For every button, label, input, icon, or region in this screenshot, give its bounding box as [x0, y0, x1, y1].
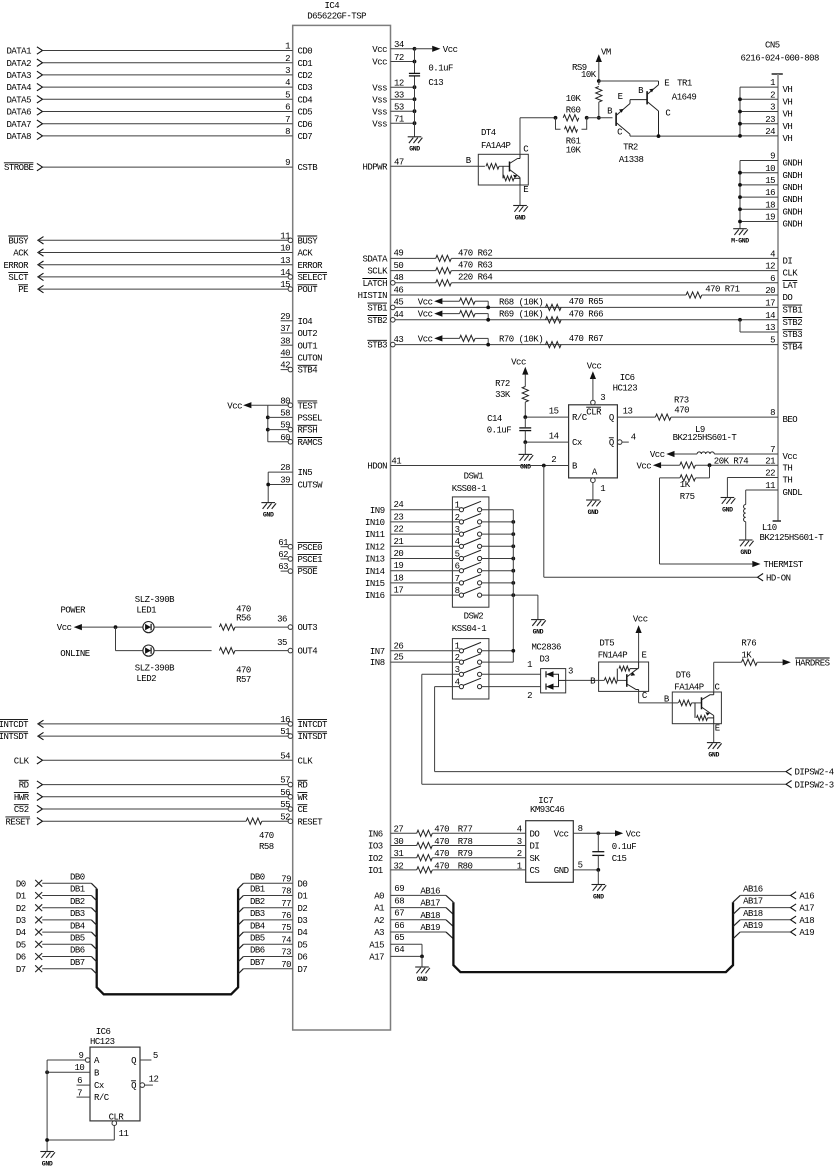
svg-text:AB18: AB18	[743, 909, 763, 919]
svg-text:75: 75	[281, 923, 291, 933]
svg-text:Cx: Cx	[94, 1081, 104, 1091]
svg-text:LAT: LAT	[783, 281, 799, 291]
node IC6b A pin 9	[47, 1051, 100, 1066]
svg-text:GNDH: GNDH	[783, 195, 803, 205]
svg-text:GND: GND	[520, 463, 531, 470]
svg-text:DATA4: DATA4	[6, 83, 31, 93]
svg-text:470 R67: 470 R67	[569, 334, 603, 344]
switch DSW2-4 to D3 and DIPSW2-4	[435, 678, 541, 689]
node IC6 Q pin 13 to BEO via resistor R73 470	[609, 396, 797, 426]
svg-text:PE: PE	[18, 285, 28, 295]
svg-text:0.1uF: 0.1uF	[612, 842, 637, 852]
svg-text:IC6: IC6	[96, 1027, 111, 1037]
svg-text:IO4: IO4	[298, 317, 313, 327]
svg-text:RFSH: RFSH	[298, 426, 318, 436]
svg-text:DIPSW2-3: DIPSW2-3	[795, 780, 834, 790]
node C52 input, pin 55 CE	[14, 800, 308, 815]
svg-text:TEST: TEST	[298, 401, 319, 411]
svg-text:470: 470	[674, 406, 689, 416]
svg-text:10K: 10K	[566, 146, 582, 156]
svg-text:SLZ-390B: SLZ-390B	[135, 595, 175, 605]
svg-text:2: 2	[551, 455, 556, 465]
svg-text:7: 7	[455, 574, 460, 584]
resistor R56 470	[154, 605, 317, 634]
node CN5 pin 24 VH	[738, 127, 792, 144]
svg-text:A17: A17	[799, 904, 814, 914]
node DATA2 input, pin 2 CD1	[6, 54, 312, 69]
svg-text:SCLK: SCLK	[367, 267, 388, 277]
node IC6b Q pin 5 stub	[131, 1051, 158, 1066]
svg-text:10: 10	[765, 164, 775, 174]
node pin 34 Vcc	[372, 40, 416, 55]
svg-text:8: 8	[285, 127, 290, 137]
svg-text:5: 5	[153, 1051, 158, 1061]
svg-text:21: 21	[394, 537, 404, 547]
node pin 30 IO3 to IC7 DI via resistor R78 470	[368, 837, 539, 852]
svg-text:20: 20	[394, 549, 404, 559]
capacitor C15 0.1uF	[592, 833, 636, 870]
svg-text:OUT3: OUT3	[298, 623, 318, 633]
svg-text:WR: WR	[298, 793, 309, 803]
svg-text:M-GND: M-GND	[731, 238, 749, 245]
svg-text:CN5: CN5	[765, 41, 780, 51]
node DB1 right entry to pin	[238, 885, 307, 902]
svg-text:DSW2: DSW2	[464, 612, 484, 622]
wire DT4 collector to R60	[520, 118, 556, 155]
node pin 31 IO2 to IC7 SK via resistor R79 470	[368, 849, 540, 864]
svg-text:DSW1: DSW1	[464, 472, 484, 482]
node CN5 pin 2 VH	[738, 90, 792, 107]
svg-text:LED2: LED2	[136, 674, 156, 684]
svg-text:17: 17	[394, 586, 404, 596]
node CN5 pin 22 TH to ground	[727, 469, 792, 498]
node IC6 Qbar pin 4 stub	[609, 432, 636, 448]
node DB6 right entry to pin	[238, 946, 307, 963]
svg-text:STB1: STB1	[783, 306, 803, 316]
svg-text:STB2: STB2	[783, 318, 803, 328]
svg-text:470 R71: 470 R71	[705, 285, 739, 295]
svg-text:R76: R76	[741, 638, 756, 648]
resistor R72 33K from Vcc	[495, 357, 528, 417]
svg-text:SDATA: SDATA	[362, 255, 388, 265]
ground for DT4 emitter	[513, 185, 528, 221]
switch DSW1 KSS08-1 body	[452, 472, 489, 608]
svg-text:DB5: DB5	[70, 934, 85, 944]
wire DSW common bus	[512, 510, 514, 662]
node CN5 pin 19 GNDH	[738, 213, 802, 230]
svg-text:DB7: DB7	[250, 958, 265, 968]
svg-text:FA1A4P: FA1A4P	[481, 141, 511, 151]
svg-text:D5: D5	[16, 940, 26, 950]
svg-text:Vcc: Vcc	[418, 297, 433, 307]
svg-text:470 R65: 470 R65	[569, 297, 603, 307]
node pin 63 PSOE stub	[278, 562, 317, 577]
svg-text:7: 7	[770, 445, 775, 455]
svg-text:10: 10	[280, 244, 290, 254]
node INTSDT output, pin 51 INTSDT	[0, 727, 328, 742]
svg-text:Vcc: Vcc	[443, 45, 458, 55]
svg-text:DIPSW2-4: DIPSW2-4	[795, 768, 834, 778]
svg-text:GND: GND	[515, 214, 526, 221]
node DB3 right entry to pin	[238, 909, 307, 926]
svg-text:R80: R80	[458, 861, 473, 871]
svg-text:GND: GND	[722, 506, 733, 513]
svg-text:14: 14	[549, 432, 559, 442]
svg-text:DT5: DT5	[599, 638, 614, 648]
wire R60 node to TR2 base	[587, 117, 613, 119]
svg-text:220 R64: 220 R64	[458, 273, 492, 283]
svg-text:19: 19	[394, 561, 404, 571]
ground for DT6 emitter	[707, 724, 722, 759]
svg-text:TR2: TR2	[623, 143, 638, 153]
switch DSW2-3 to D3 and DIPSW2-3	[422, 665, 541, 676]
svg-text:CS: CS	[530, 866, 540, 876]
node AB16 to A16 output	[733, 884, 814, 902]
svg-text:L10: L10	[762, 523, 777, 533]
wire GNDH bus vertical	[739, 161, 741, 229]
svg-text:A19: A19	[799, 928, 814, 938]
svg-text:2: 2	[455, 653, 460, 663]
svg-text:DT6: DT6	[676, 670, 691, 680]
resistor R60 10K / R61 10K parallel	[554, 94, 589, 156]
svg-text:24: 24	[394, 500, 404, 510]
svg-text:3: 3	[600, 393, 605, 403]
node pin 60 RAMCS	[268, 433, 322, 448]
node DATA5 input, pin 5 CD4	[6, 90, 312, 105]
switch DSW1-7 IN15 pin 18	[365, 573, 515, 589]
svg-text:CD7: CD7	[298, 132, 313, 142]
svg-text:DB1: DB1	[70, 885, 85, 895]
svg-text:FA1A4P: FA1A4P	[674, 682, 704, 692]
svg-text:D0: D0	[298, 879, 308, 889]
switch DSW1-6 IN14 pin 19	[365, 561, 515, 577]
svg-text:1: 1	[770, 78, 775, 88]
svg-text:HDPWR: HDPWR	[362, 162, 388, 172]
svg-text:RD: RD	[19, 781, 29, 791]
node DATA7 input, pin 7 CD6	[6, 115, 312, 130]
svg-text:13: 13	[623, 407, 633, 417]
node pin 59 RFSH	[268, 421, 317, 436]
svg-text:ERROR: ERROR	[3, 261, 29, 271]
svg-text:GND: GND	[554, 866, 569, 876]
svg-text:DB0: DB0	[70, 873, 85, 883]
svg-text:4: 4	[631, 432, 636, 442]
svg-text:2: 2	[455, 513, 460, 523]
svg-text:D0: D0	[16, 879, 26, 889]
svg-text:13: 13	[280, 256, 290, 266]
node pin 47 HDPWR	[362, 157, 478, 172]
svg-text:3: 3	[455, 665, 460, 675]
svg-text:BEO: BEO	[783, 415, 798, 425]
svg-text:Vcc: Vcc	[633, 615, 648, 625]
svg-text:R56: R56	[236, 614, 251, 624]
svg-text:77: 77	[281, 899, 291, 909]
ground for L10	[739, 540, 754, 556]
svg-text:Vcc: Vcc	[511, 357, 526, 367]
ground for C13	[408, 137, 423, 153]
svg-text:23: 23	[394, 512, 404, 522]
svg-text:10K: 10K	[566, 94, 582, 104]
svg-text:KSS08-1: KSS08-1	[452, 484, 486, 494]
svg-text:CD0: CD0	[298, 47, 313, 57]
svg-text:Vcc: Vcc	[587, 361, 602, 371]
svg-text:21: 21	[765, 456, 775, 466]
svg-text:DT4: DT4	[481, 128, 496, 138]
svg-text:Cx: Cx	[572, 438, 582, 448]
node pin 62 PSCE1 stub	[278, 550, 322, 565]
node CN5 pin 16 GNDH	[738, 188, 802, 205]
svg-text:4: 4	[285, 78, 290, 88]
ground for CN5 pin 22	[721, 498, 736, 514]
node D4 / net DB4 left entry	[16, 921, 97, 938]
node IC6b CLR pin 11 to ground	[47, 1113, 128, 1140]
node CN5 pin 23 VH	[738, 115, 792, 132]
wire TR collector rail to CN5 VH	[630, 134, 740, 138]
svg-text:A18: A18	[799, 916, 814, 926]
svg-text:CLR: CLR	[586, 408, 602, 418]
resistor R58 label	[259, 831, 274, 852]
svg-text:DB4: DB4	[250, 921, 265, 931]
svg-text:36: 36	[277, 614, 287, 624]
node pin 45 STB1 row with pull-up R68 and series R65	[367, 297, 802, 316]
svg-text:INTSDT: INTSDT	[298, 732, 329, 742]
svg-text:78: 78	[281, 887, 291, 897]
svg-text:470 R66: 470 R66	[569, 309, 603, 319]
svg-text:VH: VH	[783, 134, 793, 144]
node D2 / net DB2 left entry	[16, 897, 97, 914]
ground for C15	[592, 870, 607, 901]
svg-text:OUT4: OUT4	[298, 647, 318, 657]
svg-text:9: 9	[285, 158, 290, 168]
svg-text:IN10: IN10	[365, 518, 385, 528]
svg-text:IC4: IC4	[325, 1, 340, 11]
svg-text:GNDH: GNDH	[783, 207, 803, 217]
svg-text:65: 65	[394, 933, 404, 943]
svg-text:51: 51	[280, 727, 290, 737]
node IC6 Cx pin 14	[523, 432, 582, 449]
svg-text:6: 6	[285, 103, 290, 113]
svg-text:Vcc: Vcc	[650, 450, 665, 460]
svg-text:R58: R58	[259, 842, 274, 852]
svg-text:22: 22	[394, 525, 404, 535]
ground for A15/A17	[415, 967, 430, 983]
svg-text:6216-024-000-808: 6216-024-000-808	[741, 54, 820, 64]
svg-text:STB4: STB4	[298, 366, 318, 376]
svg-text:E: E	[618, 92, 623, 102]
op-amp U1 IC4 D65622GF-TSP body	[293, 1, 391, 1030]
node pin 80 TEST	[268, 396, 318, 411]
node CN5 pin 21 TH with resistor R74 20K pull-up	[636, 456, 792, 473]
svg-text:CD4: CD4	[298, 95, 313, 105]
svg-text:15: 15	[280, 280, 290, 290]
svg-text:1: 1	[527, 660, 532, 670]
svg-text:73: 73	[281, 948, 291, 958]
node D1 / net DB1 left entry	[16, 885, 97, 902]
node D5 / net DB5 left entry	[16, 934, 97, 951]
svg-text:ACK: ACK	[13, 249, 29, 259]
node IC6b Qbar pin 12 stub	[131, 1075, 158, 1092]
svg-text:1: 1	[455, 642, 460, 652]
node IC6 R/C pin 15	[523, 407, 602, 424]
svg-text:IN11: IN11	[365, 530, 385, 540]
node DATA8 input, pin 8 CD7	[6, 127, 312, 142]
svg-text:17: 17	[765, 299, 775, 309]
svg-text:D3: D3	[16, 916, 26, 926]
svg-text:D6: D6	[16, 953, 26, 963]
resistor R76 1K to HARDRES	[741, 638, 829, 668]
svg-text:D3: D3	[298, 916, 308, 926]
svg-text:TH: TH	[783, 463, 793, 473]
svg-text:HD-ON: HD-ON	[766, 573, 791, 583]
svg-text:16: 16	[765, 188, 775, 198]
svg-text:1: 1	[517, 861, 522, 871]
svg-text:A17: A17	[369, 953, 384, 963]
svg-text:E: E	[642, 650, 647, 660]
svg-text:CD2: CD2	[298, 71, 313, 81]
svg-text:DI: DI	[530, 842, 540, 852]
wire VH bus vertical	[739, 87, 741, 136]
svg-text:64: 64	[394, 945, 404, 955]
svg-text:GNDH: GNDH	[783, 159, 803, 169]
svg-text:Q: Q	[131, 1056, 136, 1066]
svg-text:4: 4	[455, 537, 460, 547]
svg-text:68: 68	[394, 896, 404, 906]
svg-text:IN14: IN14	[365, 567, 385, 577]
svg-text:79: 79	[281, 874, 291, 884]
svg-text:DB4: DB4	[70, 921, 85, 931]
svg-text:STB3: STB3	[367, 341, 387, 351]
svg-text:18: 18	[765, 200, 775, 210]
svg-text:25: 25	[394, 653, 404, 663]
svg-text:0.1uF: 0.1uF	[487, 425, 512, 435]
node pin 65 A15 tie	[369, 933, 422, 956]
wire DT5 collector to DT6 base	[639, 691, 673, 703]
svg-text:AB16: AB16	[420, 887, 440, 897]
capacitor C13 0.1uF	[409, 63, 453, 87]
svg-text:13: 13	[765, 323, 775, 333]
svg-text:49: 49	[394, 249, 404, 259]
svg-text:DB2: DB2	[70, 897, 85, 907]
node SLCT output, pin 14 SELECT	[8, 268, 328, 283]
svg-text:INTCDT: INTCDT	[298, 720, 329, 730]
svg-text:R79: R79	[458, 849, 473, 859]
svg-text:R68 (10K): R68 (10K)	[499, 297, 543, 307]
svg-text:SK: SK	[530, 854, 541, 864]
svg-text:3: 3	[455, 525, 460, 535]
svg-text:BK2125HS601-T: BK2125HS601-T	[760, 533, 825, 543]
svg-text:0.1uF: 0.1uF	[428, 63, 453, 73]
svg-text:RESET: RESET	[298, 817, 324, 827]
svg-text:20: 20	[765, 286, 775, 296]
svg-text:AB17: AB17	[420, 899, 440, 909]
power VM supply arrow	[596, 48, 611, 82]
svg-text:IN12: IN12	[365, 542, 385, 552]
svg-text:IN16: IN16	[365, 591, 385, 601]
node pin 42 STB4 stub	[280, 361, 317, 376]
svg-text:A2: A2	[374, 916, 384, 926]
node pin 68 A1 / net AB17	[374, 896, 453, 914]
node pin 44 STB2 row with pull-up R69 and series R66	[367, 309, 802, 328]
node pin 50 SCLK to CN5 CLK via resistor R63	[367, 261, 798, 279]
svg-text:E: E	[664, 79, 669, 89]
svg-text:AB17: AB17	[743, 897, 763, 907]
node RESET input, pin 52 RESET with resistor R58	[5, 812, 323, 827]
svg-text:3: 3	[285, 66, 290, 76]
node pin 69 A0 / net AB16	[374, 884, 453, 902]
svg-text:50: 50	[394, 261, 404, 271]
svg-text:A1338: A1338	[619, 155, 644, 165]
svg-text:GND: GND	[708, 752, 719, 759]
svg-text:DATA3: DATA3	[6, 71, 31, 81]
svg-text:9: 9	[770, 152, 775, 162]
switch DSW1-5 IN13 pin 20	[365, 549, 515, 565]
svg-text:GNDH: GNDH	[783, 171, 803, 181]
svg-text:A1: A1	[374, 904, 384, 914]
connector CN5 6216-024-000-808 body	[741, 41, 820, 521]
node HD-ON input wire	[544, 466, 791, 584]
svg-text:CLK: CLK	[298, 756, 314, 766]
switch DSW2 KSS04-1 body	[452, 612, 489, 699]
resistor R57 470	[154, 638, 317, 685]
node CN5 pin 3 VH	[738, 103, 792, 120]
svg-text:ACK: ACK	[298, 249, 314, 259]
node CN5 pin 10 GNDH	[738, 164, 802, 181]
LED2 SLZ-390B	[135, 645, 175, 684]
node D6 / net DB6 left entry	[16, 946, 97, 963]
node IC6 A pin 1 to ground	[591, 467, 606, 500]
svg-text:HARDRES: HARDRES	[795, 658, 829, 668]
svg-text:DATA5: DATA5	[6, 95, 31, 105]
svg-text:VH: VH	[783, 97, 793, 107]
svg-text:GNDH: GNDH	[783, 220, 803, 230]
switch DSW2-1 IN7 pin 26	[370, 641, 515, 657]
power Vcc arrow to IC6 CLR pin 3	[587, 361, 606, 404]
svg-text:18: 18	[394, 573, 404, 583]
svg-text:DB5: DB5	[250, 934, 265, 944]
svg-text:HISTIN: HISTIN	[358, 291, 388, 301]
svg-text:GND: GND	[409, 146, 420, 153]
svg-text:MC2836: MC2836	[532, 642, 562, 652]
power Vcc pull for TEST group	[227, 401, 269, 442]
svg-text:16: 16	[280, 715, 290, 725]
node pin 38 OUT1 stub	[280, 336, 317, 351]
svg-text:5: 5	[578, 861, 583, 871]
svg-text:STB3: STB3	[783, 330, 803, 340]
svg-text:DB6: DB6	[250, 946, 265, 956]
transistor TR2 A1338 PNP	[607, 92, 647, 165]
svg-text:IN8: IN8	[370, 658, 385, 668]
svg-text:KM93C46: KM93C46	[530, 805, 564, 815]
svg-text:R/C: R/C	[94, 1093, 110, 1103]
svg-text:26: 26	[394, 641, 404, 651]
node IC6b Cx pin 6 stub	[77, 1076, 104, 1091]
svg-text:C52: C52	[14, 805, 29, 815]
svg-text:AB19: AB19	[743, 921, 763, 931]
svg-text:1: 1	[600, 484, 605, 494]
svg-text:A1649: A1649	[672, 93, 697, 103]
svg-text:FN1A4P: FN1A4P	[598, 650, 628, 660]
svg-text:6: 6	[770, 274, 775, 284]
transistor TR1 A1649 PNP	[599, 79, 697, 137]
node BUSY output, pin 11 BUSY	[8, 231, 318, 246]
svg-text:PSCE1: PSCE1	[298, 555, 323, 565]
svg-text:23: 23	[765, 115, 775, 125]
svg-text:POWER: POWER	[61, 606, 87, 616]
svg-text:DATA8: DATA8	[6, 132, 31, 142]
resistor RS9 10K	[572, 63, 602, 120]
svg-text:CE: CE	[298, 805, 308, 815]
svg-text:IO3: IO3	[368, 842, 383, 852]
